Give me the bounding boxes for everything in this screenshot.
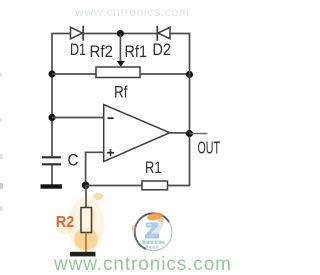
scan specks left edge — [0, 73, 3, 211]
wire potentiometer wiper vertical — [119, 34, 121, 63]
cntronics logo circle — [132, 212, 172, 251]
svg-text:D1: D1 — [70, 41, 86, 59]
wire bottom rail left — [86, 185, 142, 187]
svg-text:C: C — [68, 152, 79, 170]
wire top rail right segment — [170, 33, 190, 35]
node junction inverting input — [48, 114, 55, 121]
node junction non-inverting / R2 — [82, 182, 90, 190]
wire bottom rail right — [168, 185, 191, 187]
ground under R2 — [70, 252, 96, 257]
potentiometer Rf body — [96, 67, 140, 78]
resistor R1 — [142, 181, 168, 190]
node junction right rail2 — [186, 71, 193, 78]
cntronics logo glyph — [145, 223, 163, 239]
svg-text:Rf: Rf — [114, 84, 128, 102]
wire top rail middle segment — [83, 33, 158, 35]
diode D2 — [157, 26, 170, 41]
orange highlight glow around R2 — [56, 193, 104, 253]
watermark top: www.cntronics.com — [75, 5, 190, 19]
wiper arrow — [117, 61, 125, 67]
svg-text:OUT: OUT — [198, 138, 221, 158]
op-amp U1 — [104, 105, 170, 162]
wire R2 bottom — [85, 233, 87, 253]
wire right vertical — [189, 33, 191, 186]
cntronics logo small text — [143, 241, 165, 249]
wire to inverting input — [52, 117, 104, 119]
wire cap to ground — [51, 165, 53, 185]
wire to non-inverting input — [86, 152, 104, 185]
wire OUT stub — [190, 133, 208, 135]
wire top rail left segment — [52, 33, 71, 35]
watermark bottom: www.cntronics.com — [54, 254, 232, 275]
node junction top (wiper tap) — [117, 30, 124, 37]
node junction left rail2 — [48, 70, 55, 77]
wire R2 top — [85, 186, 87, 209]
wire rail2 right — [140, 73, 190, 75]
node junction output — [186, 130, 193, 137]
svg-text:R2: R2 — [56, 214, 75, 231]
ground under C — [41, 184, 63, 188]
capacitor C — [42, 157, 61, 164]
diode D1 — [71, 26, 84, 41]
wire rail2 left — [52, 73, 96, 75]
svg-text:D2: D2 — [153, 41, 172, 59]
wire left vertical — [51, 33, 53, 156]
resistor R2 — [81, 208, 92, 233]
svg-text:R1: R1 — [145, 159, 162, 177]
svg-text:Rf2: Rf2 — [90, 43, 114, 61]
svg-text:Rf1: Rf1 — [125, 43, 148, 61]
wire op-amp output — [170, 132, 190, 134]
